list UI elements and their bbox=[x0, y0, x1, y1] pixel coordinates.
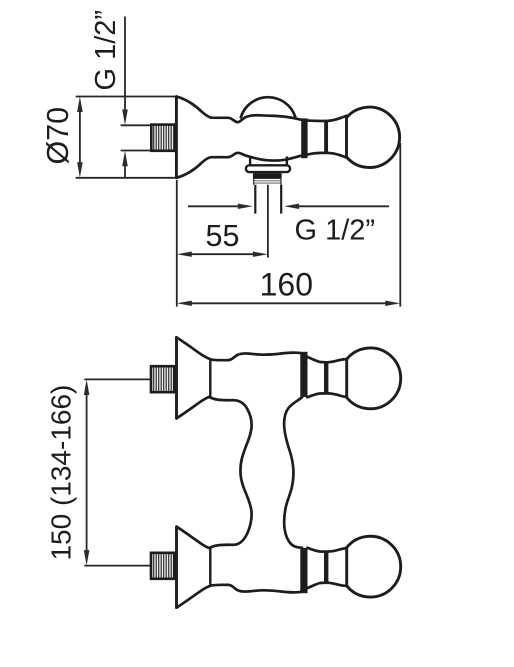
svg-text:150 (134-166): 150 (134-166) bbox=[46, 385, 77, 561]
svg-text:G 1/2”: G 1/2” bbox=[90, 10, 122, 91]
svg-text:160: 160 bbox=[260, 266, 313, 302]
svg-text:55: 55 bbox=[206, 219, 240, 253]
svg-text:G 1/2”: G 1/2” bbox=[295, 215, 376, 247]
svg-text:Ø70: Ø70 bbox=[41, 107, 75, 165]
